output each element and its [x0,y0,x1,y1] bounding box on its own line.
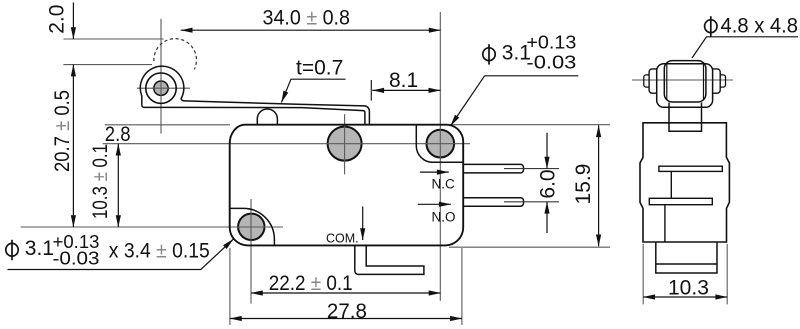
extension line NO terminal center [504,201,559,203]
svg-text:-0.03: -0.03 [526,53,576,73]
side view bottom protrusion [656,242,717,273]
side view roller face [664,61,706,102]
extension line body bottom right (15.9) [449,246,610,248]
svg-text:N.C: N.C [432,177,456,192]
svg-text:N.O: N.O [432,210,456,225]
extension line 8.1 tick [370,80,372,101]
svg-text:2.8: 2.8 [105,123,131,146]
terminal COM L-shape [355,245,424,274]
svg-text:8.1: 8.1 [389,69,418,92]
svg-text:34.0 ± 0.8: 34.0 ± 0.8 [263,7,351,30]
extension line 27.8 right [461,248,463,325]
hole H3 boss outline [230,208,275,245]
svg-text:10.3 ± 0.1: 10.3 ± 0.1 [89,144,112,219]
hole H2 boss outline [416,125,463,163]
svg-text:2.0: 2.0 [45,5,68,34]
svg-text:x 3.4 ± 0.15: x 3.4 ± 0.15 [109,240,210,263]
dimension 15.9 line [598,125,600,246]
terminal NO [463,198,523,207]
svg-text:27.8: 27.8 [327,300,367,323]
svg-text:3.1: 3.1 [25,237,54,260]
side view roller centerline [632,79,733,81]
dimension 34.0 line [181,29,441,31]
lever wrap and top line [140,66,369,125]
roller hub [154,81,168,95]
centerline hole H3 horizontal / 20.7 reference line [21,226,283,228]
svg-text:+0.13: +0.13 [526,32,576,52]
dimension 27.8 line [230,318,462,320]
crosshair roller hub [152,80,170,98]
hole H1 plunger hole [328,127,362,161]
extension line 2.0 upper [63,38,163,40]
side view NC terminal bar [659,166,722,171]
dimension 10.3v line [117,144,119,227]
dimension 6.0 lower arrow [546,202,548,233]
extension line 27.8 left [229,248,231,325]
side view hub flange left [649,69,657,93]
hole H2 mounting hole [427,130,455,158]
svg-text:15.9: 15.9 [572,164,595,205]
roller wheel [146,73,176,103]
hole H3 mounting hole [238,214,264,240]
switch body outline [230,125,464,246]
dimension 10.3 side line [643,296,727,298]
dashed circle released roller position [154,39,197,70]
svg-text:t=0.7: t=0.7 [296,56,343,79]
extension line body top right (15.9) [449,124,610,126]
leader phi3.1 bottom [8,239,234,270]
centerline hole H3 vertical [250,199,252,304]
side view axle tip left [644,75,649,87]
svg-text:-0.03: -0.03 [53,249,100,269]
terminal NC [463,164,523,173]
svg-text:22.2 ± 0.1: 22.2 ± 0.1 [269,272,353,295]
side view hub flange right [713,69,721,93]
dimension 20.7 line [72,65,74,227]
leader t=0.7 [281,79,345,102]
extension line NC terminal center [504,168,559,170]
side view roller bracket [657,64,713,108]
crosshair hole H1 [237,126,457,243]
extension line 10.3 right side view [726,244,728,304]
svg-text:4.8 x 4.8: 4.8 x 4.8 [721,14,799,37]
side view axle tip right [720,75,725,87]
centerline hole H1 vertical [344,114,346,174]
side view divider line [670,171,672,198]
crosshair hole H3 [237,226,267,228]
svg-text:6.0: 6.0 [536,169,559,198]
arrow NC [420,171,449,173]
dimension 8.1 line [372,89,440,91]
dimension 6.0 upper arrow [546,133,548,169]
label phi3.1 bottom [6,240,18,260]
side view roller face edge right [703,63,705,101]
extension line body top left (2.8) [105,124,230,126]
side view bottom inner line [664,205,666,242]
label phi4.8 [705,16,717,36]
side view NO terminal bar [649,198,712,204]
svg-text:20.7 ± 0.5: 20.7 ± 0.5 [51,90,74,172]
centerline top holes horizontal [103,143,471,145]
side view roller face edge left [666,63,668,101]
dimension 22.2 line [251,292,441,294]
crosshair hole H2 [425,143,456,145]
centerline roller horizontal [137,87,190,89]
label phi3.1 top [483,44,495,64]
svg-text:COM.: COM. [326,232,359,246]
side view body outline [640,123,729,242]
side view bottom strip line [656,263,717,265]
arrow COM [362,207,364,241]
plunger bump [257,109,277,125]
dimension 2.0 arrow [72,3,74,40]
extension line roller top [63,64,152,66]
lever foot and bottom line [142,105,365,125]
arrow NO [418,203,451,205]
extension line 10.3 left side view [642,244,644,304]
centerline hole H2 vertical [439,12,441,301]
leader phi4.8 [692,37,798,58]
svg-text:10.3: 10.3 [668,277,709,300]
side view neck [669,103,702,132]
leader phi3.1 top [451,76,579,126]
